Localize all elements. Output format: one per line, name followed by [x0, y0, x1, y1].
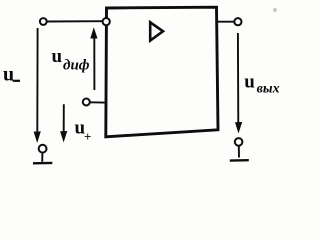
ground (right): bar [230, 159, 249, 162]
arrow u_dif (up) beside box left edge [93, 34, 95, 91]
wire: non-inverting input to box [90, 101, 105, 103]
op-amp U1 (amplifier box) [106, 7, 218, 137]
wire: inverting input to box [47, 20, 103, 22]
wire: left vertical from u- terminal down [36, 28, 38, 133]
svg-text:+: + [84, 129, 91, 144]
wire: output from box to terminal [217, 21, 234, 23]
arrow u+ (down) [63, 104, 65, 133]
svg-text:вых: вых [257, 81, 280, 96]
terminal circle: inverting input [40, 18, 47, 25]
svg-text:диф: диф [63, 58, 90, 74]
terminal circle: non-inverting input [83, 99, 90, 106]
ground (left): terminal circle [39, 145, 47, 153]
svg-text:u: u [244, 71, 255, 92]
ground (right): terminal circle [235, 138, 243, 146]
node circle on box left edge [103, 18, 110, 25]
label u_minus [3, 64, 20, 86]
terminal circle: output [234, 18, 241, 25]
svg-text:u: u [3, 64, 14, 86]
arrowhead down on left wire [34, 131, 41, 143]
amplifier gain triangle symbol [150, 22, 163, 40]
arrow u_out (down) right column [237, 33, 239, 124]
ground (left): bar [33, 162, 52, 165]
scan speck [273, 8, 277, 12]
ground (left): stem [41, 153, 43, 162]
label u_dif [52, 46, 90, 74]
ground (right): stem [238, 146, 240, 158]
svg-text:u: u [52, 46, 63, 67]
label u_plus [75, 117, 92, 144]
label u_out [244, 71, 279, 96]
